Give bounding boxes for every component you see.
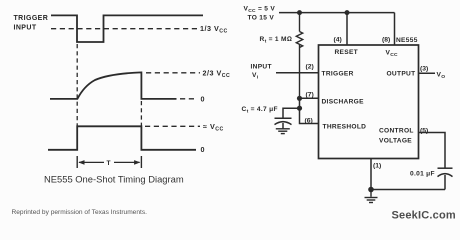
svg-text:(6): (6) xyxy=(305,118,313,125)
op-amp U1 NE555 IC box xyxy=(319,45,419,159)
pin 4 label xyxy=(334,37,342,44)
svg-text:CONTROL: CONTROL xyxy=(379,127,414,134)
svg-text:VCC: VCC xyxy=(386,50,399,59)
svg-text:0.01 μF: 0.01 μF xyxy=(410,171,435,178)
T dimension right end bar xyxy=(140,156,142,168)
node junction dot discharge xyxy=(297,96,302,101)
svg-text:TRIGGER: TRIGGER xyxy=(322,70,354,77)
wire Ct node to capacitor xyxy=(283,108,300,117)
vertical dashed line at pulse end (t=T) xyxy=(140,101,142,126)
T dimension left arrowhead xyxy=(78,160,84,165)
label Rt = 1 Mohm xyxy=(260,36,293,45)
wire from Vcc to pin 8 (down) xyxy=(394,13,396,45)
ground (below Ct) xyxy=(276,129,290,134)
resistor Rt xyxy=(296,13,302,98)
svg-text:1/3 VCC: 1/3 VCC xyxy=(200,24,228,35)
Vcc supply wire (top horizontal) xyxy=(279,12,395,14)
svg-text:≈ VCC: ≈ VCC xyxy=(203,122,224,133)
output waveform xyxy=(48,126,196,150)
svg-text:TO 15 V: TO 15 V xyxy=(248,15,275,22)
1/3 Vcc dashed level line xyxy=(51,28,197,30)
label Vcc pin xyxy=(386,50,399,59)
label TRIGGER INPUT xyxy=(14,15,49,32)
svg-text:VOLTAGE: VOLTAGE xyxy=(379,137,412,144)
capacitor Ct (polarized) xyxy=(275,118,292,128)
caption: NE555 One-Shot Timing Diagram xyxy=(44,174,184,185)
svg-text:THRESHOLD: THRESHOLD xyxy=(323,123,367,130)
label Vcc = 5V to 15V xyxy=(244,6,276,22)
label NE555 xyxy=(396,37,418,44)
label TRIGGER (pin) xyxy=(322,70,354,77)
node junction dot at Rt tap xyxy=(297,10,302,15)
wire pin 5 control voltage to bypass cap xyxy=(419,133,446,168)
label OUTPUT xyxy=(387,70,416,77)
pin 7 label xyxy=(306,92,314,99)
trigger input waveform xyxy=(51,15,203,42)
svg-text:T: T xyxy=(107,160,111,167)
vertical dashed line at pulse start (t=0) xyxy=(76,44,78,126)
T dimension right arrowhead xyxy=(134,160,140,165)
svg-text:OUTPUT: OUTPUT xyxy=(387,70,416,77)
label 0 (capacitor baseline) xyxy=(201,94,206,103)
wire output pin 3 xyxy=(419,72,436,74)
node junction dot at reset branch xyxy=(345,10,350,15)
svg-text:(2): (2) xyxy=(306,64,314,71)
2/3 Vcc dashed level line xyxy=(146,72,200,74)
wire Ct node down to pin 6 threshold xyxy=(300,108,319,123)
0 dashed level line (capacitor) xyxy=(180,98,197,100)
svg-text:DISCHARGE: DISCHARGE xyxy=(322,98,365,105)
svg-text:INPUT: INPUT xyxy=(14,25,37,32)
svg-text:Rt = 1 MΩ: Rt = 1 MΩ xyxy=(260,36,293,45)
svg-text:(5): (5) xyxy=(420,128,428,135)
svg-text:VCC = 5 V: VCC = 5 V xyxy=(244,6,276,15)
label THRESHOLD xyxy=(323,123,367,130)
svg-text:VO: VO xyxy=(437,72,446,81)
pin 1 label xyxy=(373,163,381,170)
svg-text:INPUT: INPUT xyxy=(251,64,272,71)
label 1/3 Vcc xyxy=(200,24,228,35)
label Ct = 4.7 uF xyxy=(242,106,278,115)
label DISCHARGE xyxy=(322,98,365,105)
label 2/3 Vcc xyxy=(203,68,231,79)
svg-text:(1): (1) xyxy=(373,163,381,170)
node junction dot Ct xyxy=(297,106,302,111)
svg-text:(3): (3) xyxy=(420,66,428,73)
watermark SeekIC.com xyxy=(392,210,456,222)
svg-text:(8): (8) xyxy=(382,37,390,44)
label approx Vcc xyxy=(203,122,224,133)
T dimension arrow line xyxy=(79,161,140,163)
svg-text:Ct = 4.7 μF: Ct = 4.7 μF xyxy=(242,106,278,115)
label T xyxy=(107,160,111,167)
svg-text:0: 0 xyxy=(201,94,206,103)
label CONTROL VOLTAGE xyxy=(379,127,414,144)
node junction dot ground xyxy=(368,187,374,193)
svg-text:RESET: RESET xyxy=(335,49,358,56)
label INPUT Vi xyxy=(251,64,272,81)
svg-text:2/3 VCC: 2/3 VCC xyxy=(203,68,231,79)
wire pin 1 down to ground node xyxy=(370,159,372,190)
svg-text:Reprinted by permission of Tex: Reprinted by permission of Texas Instrum… xyxy=(12,209,148,216)
label 0.01 uF xyxy=(410,171,435,178)
svg-text:TRIGGER: TRIGGER xyxy=(14,15,49,22)
svg-text:(4): (4) xyxy=(334,37,342,44)
T dimension left end bar xyxy=(76,156,78,168)
pin 2 label xyxy=(306,64,314,71)
note: Reprinted by permission of Texas Instruments. xyxy=(12,209,148,216)
svg-text:VI: VI xyxy=(252,72,259,81)
pin 5 label xyxy=(420,128,428,135)
svg-text:0: 0 xyxy=(201,145,206,154)
approx Vcc dashed level line xyxy=(145,125,200,127)
wire input to pin 2 trigger xyxy=(276,72,319,74)
label 0 (output baseline) xyxy=(201,145,206,154)
wire discharge node down to Ct node xyxy=(299,98,301,108)
wire ground node to bypass cap xyxy=(371,189,445,191)
pin 3 label xyxy=(420,66,428,73)
wire from junction to pin 4 reset (down) xyxy=(346,13,348,45)
label Vo xyxy=(437,72,446,81)
svg-text:NE555: NE555 xyxy=(396,37,418,44)
wire to pin 7 discharge xyxy=(300,97,319,99)
pin 8 label xyxy=(382,37,390,44)
capacitor 0.01uF (polarized) xyxy=(438,168,453,189)
label RESET xyxy=(335,49,358,56)
ground (below pin 1) xyxy=(365,190,378,203)
svg-text:NE555 One-Shot Timing Diagram: NE555 One-Shot Timing Diagram xyxy=(44,174,184,185)
svg-text:SeekIC.com: SeekIC.com xyxy=(392,210,456,222)
capacitor voltage waveform (exponential) xyxy=(50,72,177,99)
svg-text:(7): (7) xyxy=(306,92,314,99)
pin 6 label xyxy=(305,118,313,125)
